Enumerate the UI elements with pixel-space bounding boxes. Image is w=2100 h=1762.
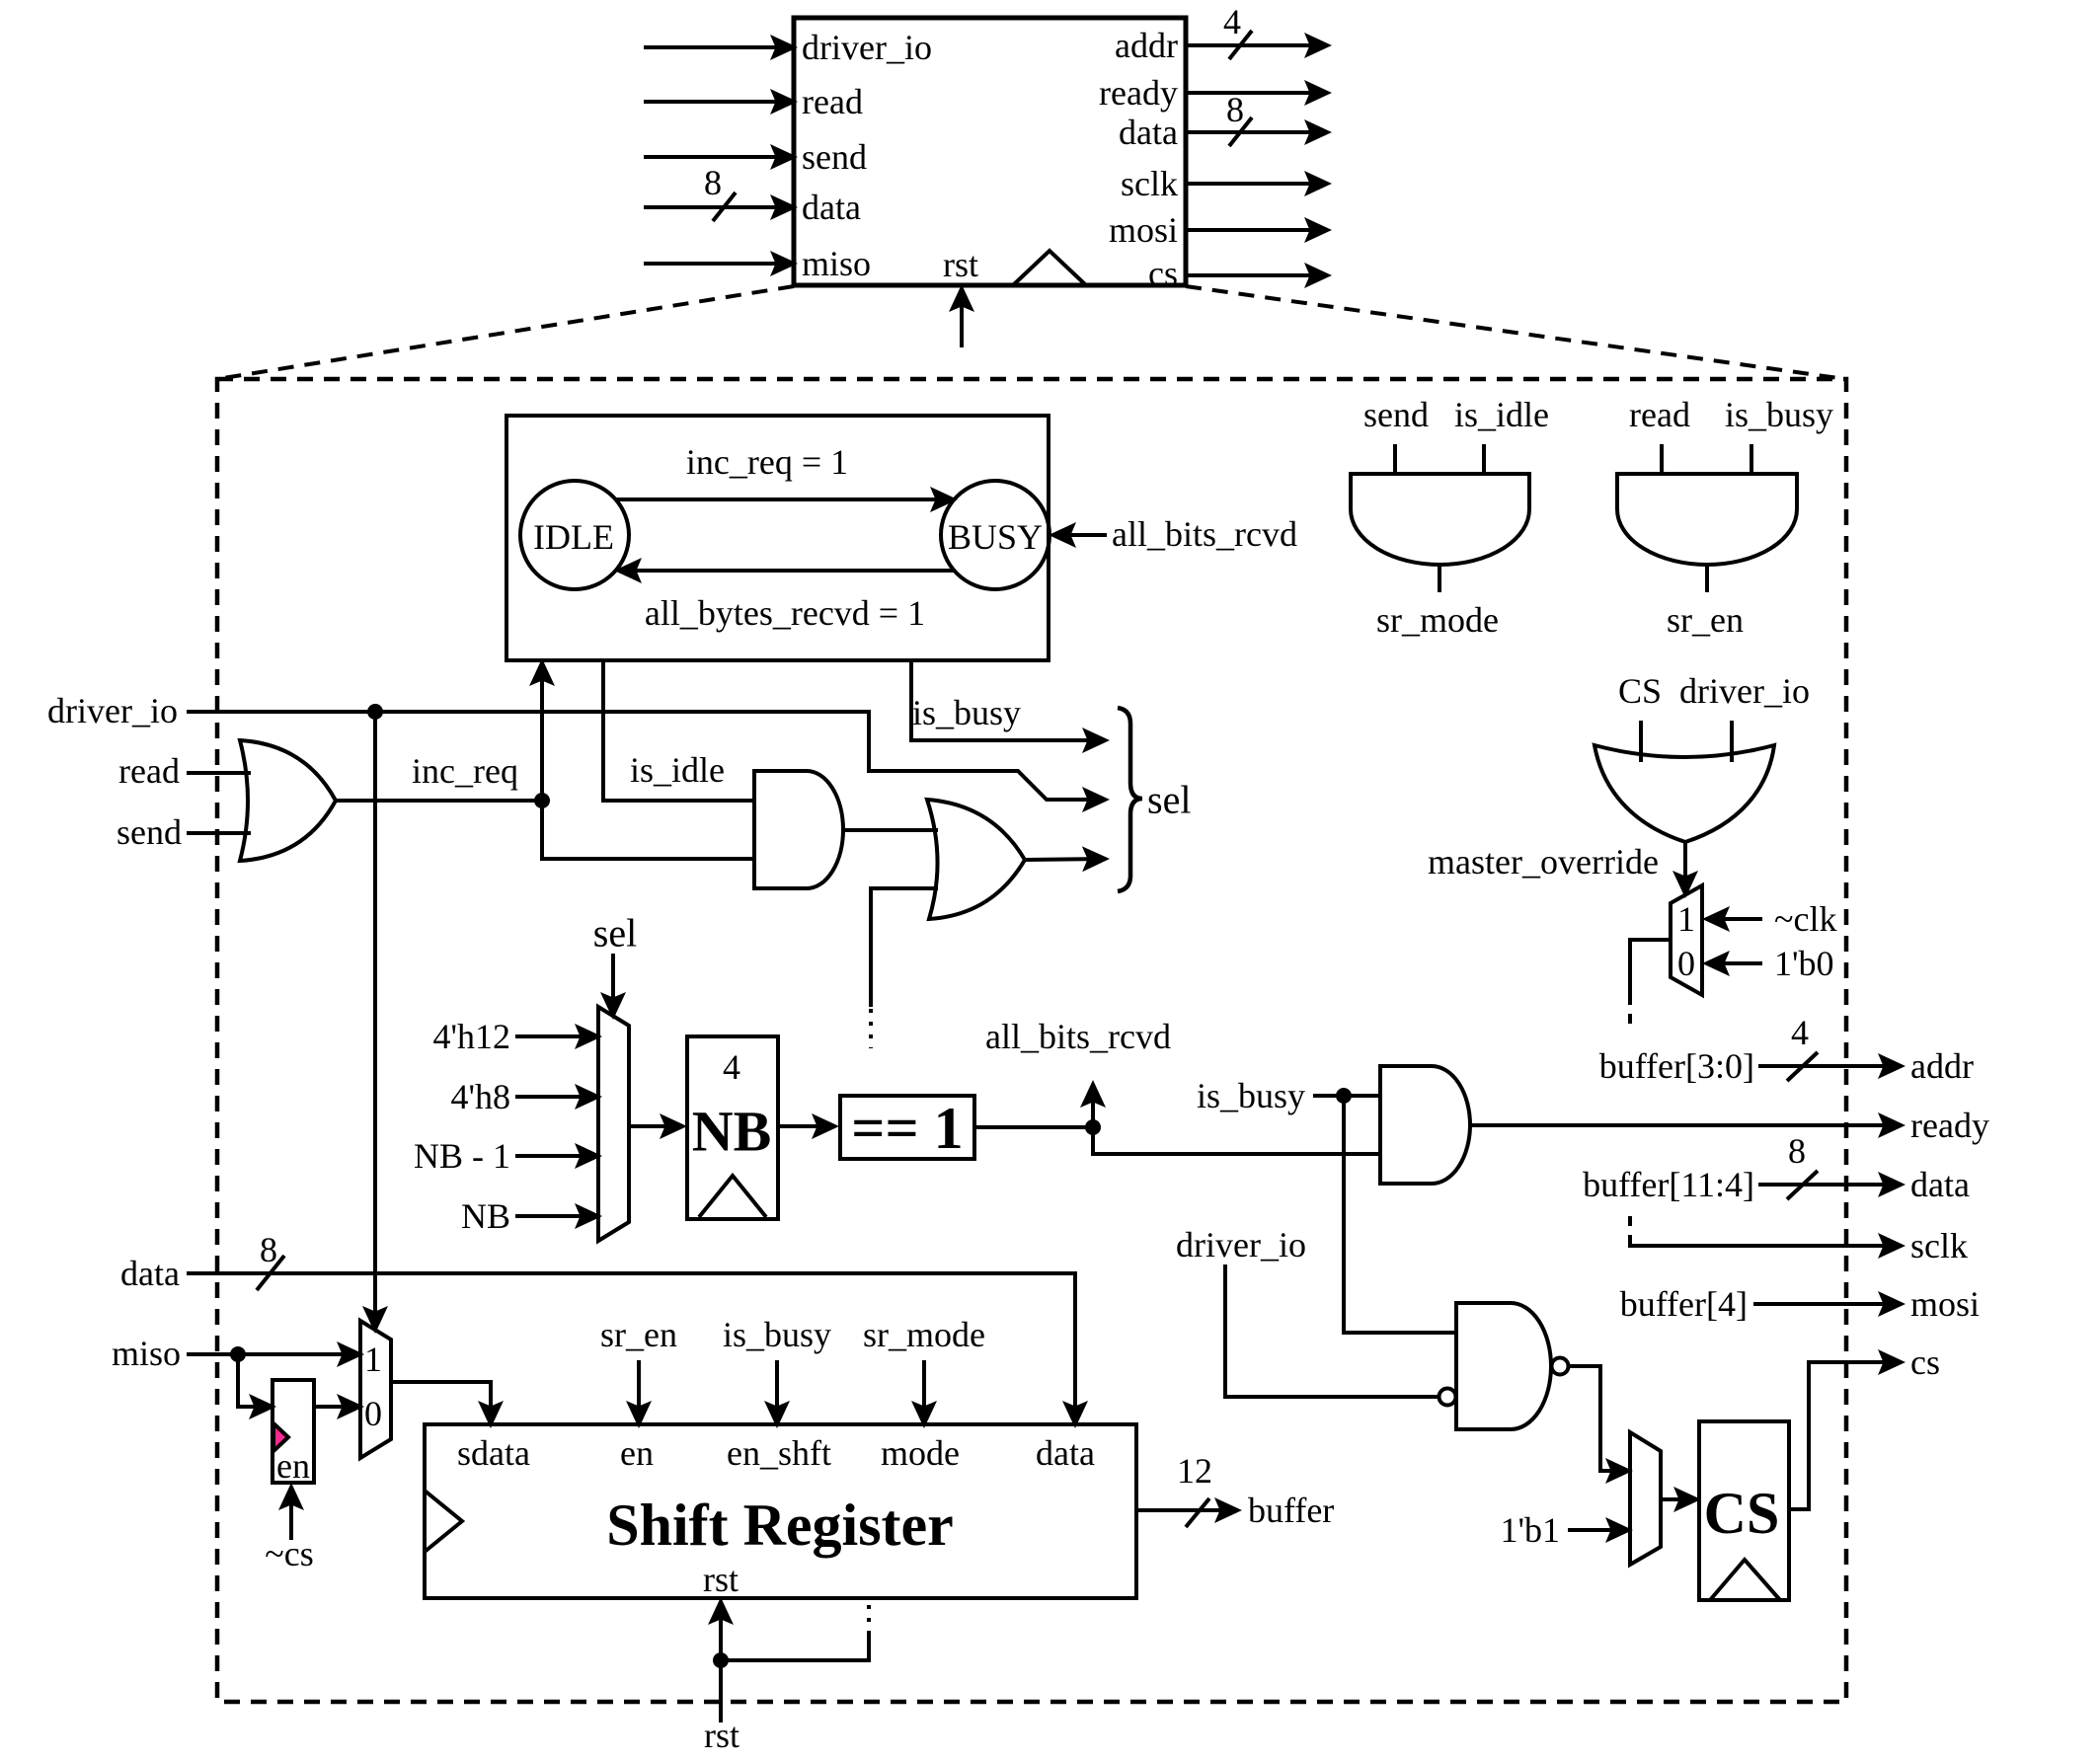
- wire input driver_io: [644, 45, 794, 49]
- svg-text:all_bits_rcvd: all_bits_rcvd: [1112, 514, 1297, 554]
- wire is_busy from FSM to sel: [911, 660, 1106, 740]
- bus slash 4 on addr output: [1229, 31, 1252, 59]
- shift register box: [425, 1424, 1136, 1598]
- wire 4'h12 input: [515, 1034, 598, 1038]
- svg-text:master_override: master_override: [1428, 842, 1659, 881]
- svg-text:~clk: ~clk: [1774, 899, 1836, 939]
- clock triangle shift register: [425, 1491, 462, 1552]
- svg-text:8: 8: [1226, 90, 1244, 129]
- wire sclk elbow: [1630, 1240, 1902, 1246]
- svg-text:1: 1: [1677, 899, 1695, 939]
- svg-text:read: read: [802, 82, 863, 121]
- svg-text:4: 4: [1791, 1013, 1809, 1052]
- wire sr_en output: [1705, 564, 1709, 592]
- or-gate OR2 sel: [927, 800, 1025, 919]
- wire inc_req from OR1: [336, 799, 542, 803]
- svg-text:IDLE: IDLE: [533, 517, 614, 557]
- wire all_bits_rcvd to AND5: [1093, 1127, 1380, 1154]
- wire sr_mode arrow: [922, 1360, 926, 1424]
- svg-text:rst: rst: [943, 245, 978, 284]
- wire CS stub: [1639, 721, 1643, 762]
- svg-text:cs: cs: [1148, 254, 1178, 293]
- inversion bubble NAND1 output: [1552, 1358, 1569, 1375]
- transition arrow IDLE to BUSY: [616, 498, 954, 501]
- wire inc_req to AND2 lower input: [542, 801, 754, 859]
- svg-text:mosi: mosi: [1910, 1284, 1980, 1324]
- wire data input bus: [187, 1273, 1075, 1424]
- svg-text:BUSY: BUSY: [948, 517, 1043, 557]
- svg-text:CS: CS: [1704, 1481, 1780, 1546]
- dashed sclk route upper: [1628, 995, 1632, 1029]
- svg-text:read: read: [1629, 395, 1690, 434]
- svg-text:addr: addr: [1115, 26, 1178, 65]
- svg-text:driver_io: driver_io: [1679, 671, 1810, 711]
- svg-text:8: 8: [1788, 1131, 1806, 1171]
- svg-text:all_bits_rcvd: all_bits_rcvd: [985, 1017, 1171, 1056]
- svg-text:0: 0: [1677, 944, 1695, 983]
- wire NB - 1 input: [515, 1154, 598, 1158]
- svg-text:8: 8: [260, 1230, 277, 1269]
- svg-text:ready: ready: [1099, 73, 1178, 113]
- svg-text:sel: sel: [593, 911, 637, 956]
- wire output mosi: [1186, 228, 1328, 232]
- svg-text:12: 12: [1177, 1451, 1212, 1491]
- inversion bubble NAND1 lower input: [1439, 1389, 1456, 1406]
- wire input data: [644, 205, 794, 209]
- mux MX1 master_override: [1671, 885, 1702, 995]
- svg-text:en: en: [620, 1433, 654, 1473]
- wire rst branch to OR2: [721, 1635, 869, 1660]
- svg-text:data: data: [1119, 113, 1178, 152]
- svg-text:sr_mode: sr_mode: [1376, 600, 1499, 640]
- svg-text:mosi: mosi: [1109, 210, 1178, 250]
- svg-text:NB: NB: [461, 1196, 510, 1236]
- svg-text:driver_io: driver_io: [47, 691, 178, 730]
- register CS: [1699, 1421, 1789, 1600]
- wire output addr: [1186, 43, 1328, 47]
- svg-text:1'b1: 1'b1: [1501, 1510, 1561, 1550]
- svg-text:is_busy: is_busy: [1725, 395, 1833, 434]
- wire ~clk input: [1706, 917, 1762, 921]
- wire buffer[11:4] to data: [1758, 1183, 1902, 1187]
- wire cs output: [1789, 1362, 1902, 1509]
- nand-gate NAND1: [1456, 1303, 1551, 1429]
- wire sel down into NB mux: [611, 954, 615, 1016]
- svg-text:all_bytes_recvd = 1: all_bytes_recvd = 1: [645, 593, 925, 633]
- svg-text:1'b0: 1'b0: [1774, 944, 1834, 983]
- svg-text:driver_io: driver_io: [802, 28, 932, 67]
- svg-text:miso: miso: [112, 1334, 181, 1373]
- node is_busy junction: [1336, 1088, 1352, 1104]
- svg-text:is_busy: is_busy: [912, 693, 1021, 732]
- wire 1'b1 input: [1568, 1528, 1629, 1532]
- svg-text:== 1: == 1: [851, 1096, 963, 1161]
- svg-text:is_busy: is_busy: [1197, 1076, 1305, 1115]
- wire OR2 lower input from rst line: [871, 888, 938, 1007]
- and-gate AND4 read/is_busy (sr_en): [1617, 474, 1797, 565]
- wire NB input: [515, 1214, 598, 1218]
- svg-text:ready: ready: [1910, 1106, 1989, 1145]
- svg-text:inc_req = 1: inc_req = 1: [686, 442, 848, 482]
- node inc_req junction: [534, 793, 550, 808]
- svg-text:sel: sel: [1147, 778, 1191, 822]
- svg-text:sr_en: sr_en: [600, 1315, 677, 1354]
- wire driver_io to NAND1: [1225, 1264, 1439, 1397]
- svg-text:en_shft: en_shft: [727, 1433, 831, 1473]
- wire buffer output: [1136, 1508, 1238, 1512]
- svg-text:buffer: buffer: [1248, 1491, 1334, 1530]
- svg-text:data: data: [120, 1254, 180, 1293]
- svg-text:Shift Register: Shift Register: [606, 1493, 954, 1558]
- wire NB to ==1: [778, 1124, 835, 1128]
- wire MX1 output to sclk: [1630, 940, 1671, 995]
- svg-text:cs: cs: [1910, 1342, 1940, 1382]
- svg-text:rst: rst: [704, 1716, 739, 1755]
- wire sr_en arrow: [637, 1360, 641, 1424]
- dashed connector right: [1186, 286, 1845, 379]
- dotted continuation of rst line top: [869, 1009, 873, 1048]
- clock triangle CS: [1710, 1560, 1780, 1600]
- svg-text:4: 4: [723, 1047, 740, 1087]
- svg-text:is_busy: is_busy: [723, 1315, 831, 1354]
- wire ready output: [1470, 1123, 1902, 1127]
- svg-text:8: 8: [704, 163, 722, 202]
- wire is_busy stub: [1750, 444, 1753, 474]
- svg-text:4: 4: [1223, 2, 1241, 41]
- svg-text:is_idle: is_idle: [630, 750, 725, 790]
- svg-text:mode: mode: [881, 1433, 960, 1473]
- wire driver_io stub: [1730, 721, 1734, 762]
- svg-text:sr_en: sr_en: [1667, 600, 1744, 640]
- wire read stub: [1660, 444, 1664, 474]
- svg-text:send: send: [802, 137, 867, 177]
- svg-text:inc_req: inc_req: [412, 751, 518, 791]
- wire NAND1 output to MX3: [1569, 1366, 1629, 1471]
- svg-text:send: send: [117, 812, 182, 852]
- svg-text:buffer[4]: buffer[4]: [1620, 1284, 1748, 1324]
- svg-text:buffer[3:0]: buffer[3:0]: [1599, 1046, 1754, 1086]
- wire all_bits_rcvd into BUSY: [1052, 533, 1107, 537]
- svg-text:en: en: [276, 1446, 310, 1486]
- comparator == 1: [840, 1096, 974, 1159]
- wire output sclk: [1186, 182, 1328, 186]
- wire input read: [644, 100, 794, 104]
- svg-text:sclk: sclk: [1910, 1226, 1968, 1265]
- wire driver_io main: [187, 712, 1106, 800]
- bus slash 8 on data output: [1229, 117, 1252, 146]
- bus slash 12 on buffer: [1186, 1498, 1209, 1527]
- svg-text:miso: miso: [802, 244, 871, 283]
- wire inc_req arrow into FSM: [540, 662, 544, 801]
- wire input miso: [644, 262, 794, 266]
- bus slash 8 on data input: [713, 192, 736, 221]
- node all_bits_rcvd junction: [1085, 1119, 1101, 1135]
- wire miso down to en register: [238, 1354, 272, 1407]
- svg-text:sclk: sclk: [1121, 164, 1178, 203]
- wire buffer[4] to mosi: [1753, 1302, 1902, 1306]
- wire buffer[3:0] to addr: [1758, 1064, 1902, 1068]
- mux MX3 cs select: [1630, 1432, 1661, 1565]
- and-gate AND2 is_idle/inc_req: [754, 771, 843, 888]
- transition arrow BUSY to IDLE: [618, 569, 954, 573]
- wire is_busy arrow: [775, 1360, 779, 1424]
- svg-text:read: read: [118, 751, 180, 791]
- wire ~cs into en register: [289, 1487, 293, 1540]
- wire is_idle from FSM: [603, 660, 754, 801]
- and-gate AND5 ready: [1380, 1066, 1470, 1184]
- state IDLE circle: [520, 481, 629, 589]
- rst input arrow: [960, 288, 964, 347]
- mux MX4 miso/en: [360, 1321, 391, 1458]
- wire master_override: [1683, 842, 1687, 894]
- dashed module boundary box: [217, 379, 1846, 1702]
- svg-text:NB - 1: NB - 1: [414, 1136, 510, 1176]
- wire output data: [1186, 130, 1328, 134]
- svg-text:data: data: [1036, 1433, 1095, 1473]
- node driver_io junction: [367, 704, 383, 720]
- brace sel: [1118, 708, 1142, 891]
- wire send input: [187, 831, 251, 835]
- svg-text:rst: rst: [703, 1560, 739, 1599]
- module block: SPI driver top: [794, 18, 1186, 285]
- svg-text:data: data: [1910, 1165, 1970, 1204]
- register NB: [687, 1036, 778, 1219]
- wire MX3 output to CS register: [1661, 1497, 1697, 1501]
- svg-text:~cs: ~cs: [265, 1534, 313, 1573]
- wire AND2 output: [843, 828, 938, 832]
- svg-text:buffer[11:4]: buffer[11:4]: [1583, 1165, 1754, 1204]
- mux MX2 NB select: [598, 1007, 629, 1241]
- bus slash 8 on data: [1787, 1171, 1818, 1199]
- svg-text:4'h8: 4'h8: [451, 1077, 511, 1116]
- wire all_bits_rcvd up arrow: [1091, 1084, 1095, 1127]
- bus slash 8 on data: [257, 1256, 284, 1290]
- wire rst tail: [719, 1660, 723, 1723]
- clock triangle on top block: [1013, 251, 1086, 285]
- bus slash 4 on addr: [1787, 1052, 1818, 1081]
- wire OR2 output to sel: [1025, 859, 1106, 860]
- wire 1'b0 input: [1706, 961, 1762, 965]
- wire input send: [644, 155, 794, 159]
- svg-text:NB: NB: [692, 1100, 772, 1164]
- wire sr_mode output: [1438, 564, 1441, 592]
- svg-text:1: 1: [364, 1340, 382, 1379]
- wire send stub: [1393, 444, 1397, 474]
- svg-text:0: 0: [364, 1394, 382, 1433]
- dotted continuation of rst line bottom: [867, 1603, 871, 1635]
- wire read input: [187, 771, 251, 775]
- svg-text:sr_mode: sr_mode: [863, 1315, 985, 1354]
- wire rst into shift register: [719, 1601, 723, 1660]
- svg-text:driver_io: driver_io: [1176, 1225, 1306, 1264]
- FSM state machine box: [506, 416, 1049, 660]
- wire output cs: [1186, 273, 1328, 277]
- wire output ready: [1186, 91, 1328, 95]
- wire 4'h8 input: [515, 1095, 598, 1099]
- wire driver_io down to miso mux: [373, 712, 377, 1330]
- svg-text:send: send: [1363, 395, 1429, 434]
- dashed sclk route lower: [1628, 1216, 1632, 1240]
- svg-text:sdata: sdata: [457, 1433, 530, 1473]
- wire en register output to MX4: [314, 1405, 360, 1409]
- and-gate AND3 send/is_idle (sr_mode): [1351, 474, 1529, 565]
- clock triangle NB: [699, 1176, 766, 1217]
- or-gate OR3 CS/driver_io: [1594, 745, 1774, 842]
- wire is_idle stub: [1482, 444, 1486, 474]
- node miso junction: [230, 1346, 246, 1362]
- register en: [272, 1380, 314, 1483]
- wire is_busy input: [1313, 1094, 1380, 1098]
- wire miso input: [187, 1352, 360, 1356]
- svg-text:4'h12: 4'h12: [433, 1017, 511, 1056]
- svg-text:CS: CS: [1618, 671, 1662, 711]
- clock wedge en register: [273, 1423, 288, 1451]
- wire MX4 output to sdata: [391, 1382, 491, 1424]
- svg-text:data: data: [802, 188, 861, 227]
- wire MX2 output: [629, 1124, 683, 1128]
- wire comparator output: [974, 1125, 1093, 1129]
- or-gate read/send OR1: [240, 740, 336, 861]
- dashed connector left: [217, 286, 794, 379]
- wire is_busy down to NAND: [1344, 1096, 1456, 1333]
- state BUSY circle: [941, 481, 1050, 589]
- svg-text:addr: addr: [1910, 1046, 1974, 1086]
- svg-text:is_idle: is_idle: [1454, 395, 1549, 434]
- node rst junction: [713, 1652, 729, 1668]
